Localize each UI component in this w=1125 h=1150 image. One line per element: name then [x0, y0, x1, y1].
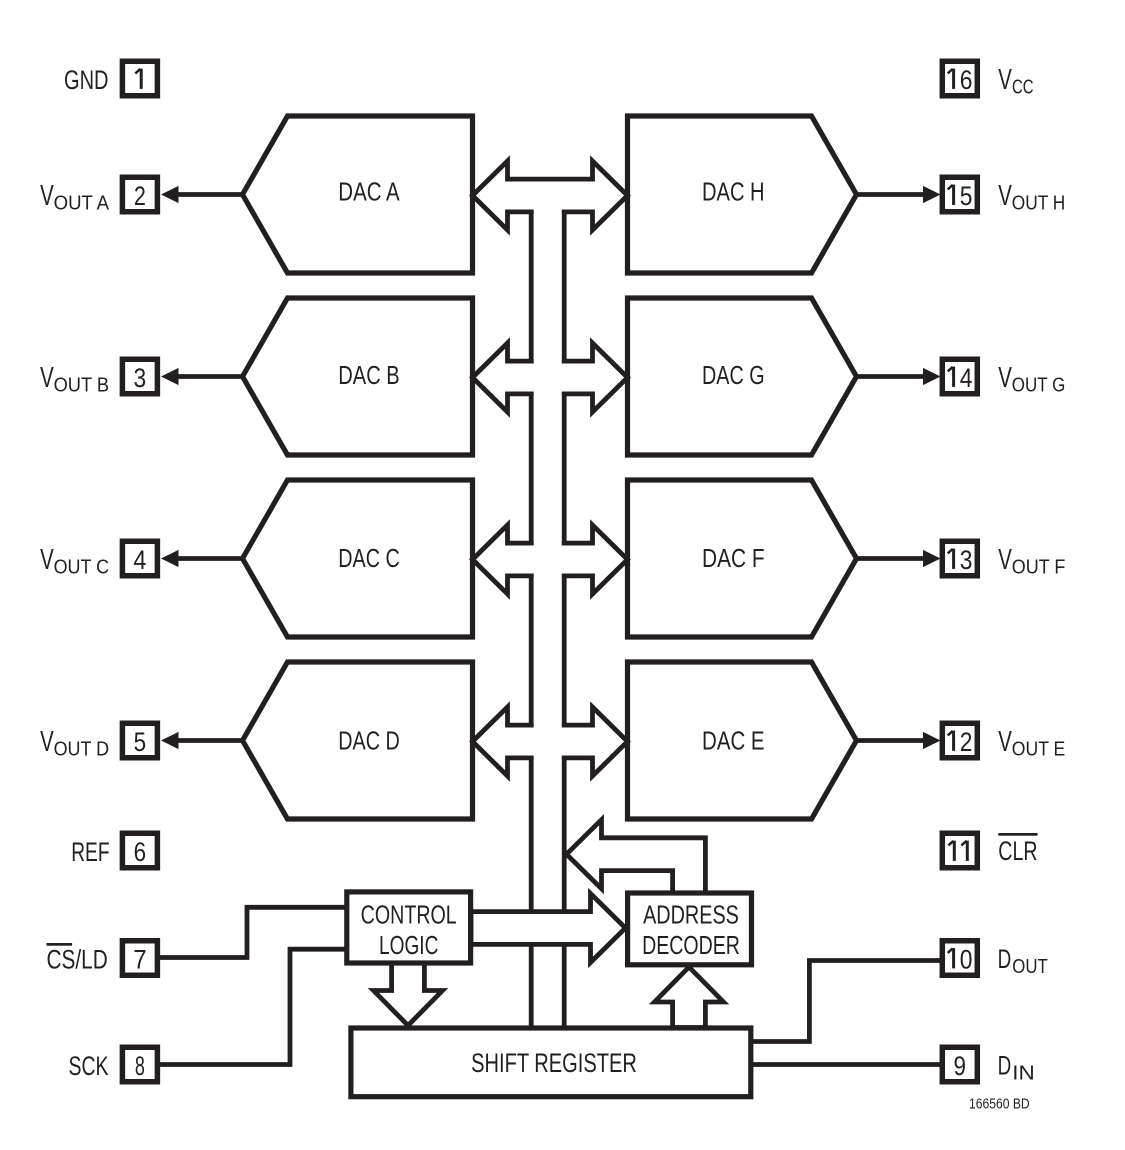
wire CS/LD to control logic [160, 907, 347, 957]
svg-text:DAC D: DAC D [338, 728, 399, 756]
control logic block [347, 892, 471, 963]
pin 15 number [952, 185, 955, 205]
svg-text:OUT F: OUT F [1012, 555, 1066, 578]
svg-text:DAC C: DAC C [338, 545, 399, 573]
svg-text:5: 5 [960, 181, 973, 211]
svg-text:V: V [40, 362, 54, 394]
pin box 3 [122, 359, 157, 394]
svg-text:OUT B: OUT B [54, 373, 110, 396]
pin box 7 [122, 941, 157, 976]
shift register block [351, 1028, 751, 1097]
bidirectional bus arrow row C [473, 525, 628, 594]
arrowhead VOUT G [923, 368, 941, 385]
svg-text:V: V [998, 544, 1012, 576]
wire DAC E to pin [857, 738, 930, 743]
arrowhead VOUT H [923, 186, 941, 203]
pin 11 number [953, 841, 956, 861]
svg-text:CC: CC [1012, 75, 1034, 98]
svg-text:166560 BD: 166560 BD [969, 1097, 1030, 1113]
pin 13 number [952, 549, 955, 569]
bus line right [562, 212, 567, 1028]
wire SCK to control logic [160, 949, 347, 1064]
pin 16 number [952, 69, 955, 89]
svg-text:REF: REF [71, 837, 109, 867]
svg-text:DAC H: DAC H [702, 178, 765, 206]
svg-text:SHIFT REGISTER: SHIFT REGISTER [471, 1048, 637, 1078]
pin 10 number [952, 948, 955, 968]
svg-text:V: V [998, 180, 1012, 212]
wire DAC A to pin [172, 192, 243, 197]
svg-text:6: 6 [134, 837, 147, 867]
wire DAC H to pin [857, 192, 930, 197]
svg-text:7: 7 [133, 944, 146, 974]
svg-text:DECODER: DECODER [642, 932, 740, 960]
pin box 6 [122, 833, 157, 868]
DAC H block [628, 116, 857, 273]
svg-text:OUT G: OUT G [1012, 373, 1066, 396]
pin 1 number [140, 69, 143, 89]
svg-text:2: 2 [134, 181, 146, 211]
svg-text:3: 3 [134, 363, 147, 393]
svg-text:OUT H: OUT H [1012, 191, 1066, 214]
pin box 8 [122, 1047, 157, 1082]
pin box 10 [942, 941, 977, 976]
arrow control logic to shift register [374, 963, 443, 1026]
bus channel crossing row A [534, 208, 562, 217]
wire DAC D to pin [172, 738, 243, 743]
svg-text:LOGIC: LOGIC [379, 932, 438, 960]
svg-text:DAC F: DAC F [702, 545, 765, 573]
svg-text:OUT: OUT [1012, 955, 1048, 978]
svg-text:OUT E: OUT E [1012, 737, 1066, 760]
bus channel crossing row C [534, 540, 562, 580]
arrowhead VOUT F [923, 550, 941, 567]
wire DAC F to pin [857, 556, 930, 561]
pin box 15 [942, 177, 977, 212]
pin box 14 [942, 359, 977, 394]
svg-text:SCK: SCK [69, 1051, 109, 1081]
DAC F block [628, 480, 857, 637]
svg-text:IN: IN [1012, 1061, 1035, 1084]
wire shift register to DIN [751, 1062, 941, 1067]
bidirectional bus arrow row A [473, 161, 628, 230]
svg-text:DAC B: DAC B [338, 362, 399, 390]
arrow control logic to address decoder [471, 894, 626, 963]
svg-text:4: 4 [133, 545, 146, 575]
arrowhead VOUT E [923, 732, 941, 749]
pin box 2 [122, 177, 157, 212]
svg-text:0: 0 [960, 944, 973, 974]
wire DAC G to pin [857, 374, 930, 379]
bus channel crossing row B [534, 358, 562, 398]
pin box 11 [942, 833, 977, 868]
svg-text:8: 8 [135, 1051, 145, 1081]
wire shift register to DOUT [751, 961, 942, 1042]
pin box 12 [942, 723, 977, 758]
pin box 1 [122, 61, 157, 96]
bus channel crossing row D [534, 722, 562, 762]
pin box 13 [942, 541, 977, 576]
address decoder block [628, 893, 752, 965]
svg-text:D: D [998, 944, 1012, 974]
svg-text:V: V [998, 726, 1012, 758]
svg-text:GND: GND [64, 65, 109, 95]
arrowhead VOUT D [161, 732, 179, 749]
svg-text:5: 5 [134, 727, 147, 757]
svg-text:V: V [40, 726, 54, 758]
svg-text:CONTROL: CONTROL [361, 901, 457, 929]
svg-text:DAC G: DAC G [702, 362, 765, 390]
wire DAC B to pin [172, 374, 243, 379]
svg-text:D: D [998, 1051, 1012, 1081]
svg-text:CLR: CLR [998, 836, 1037, 866]
svg-text:V: V [40, 180, 54, 212]
DAC A block [243, 116, 473, 273]
svg-text:2: 2 [960, 727, 973, 757]
arrowhead VOUT A [161, 186, 179, 203]
pin box 9 [942, 1047, 977, 1082]
svg-text:OUT C: OUT C [54, 555, 110, 578]
svg-text:DAC A: DAC A [338, 178, 399, 206]
pin 14 number [952, 367, 955, 387]
svg-text:OUT D: OUT D [54, 737, 110, 760]
svg-text:V: V [998, 362, 1012, 394]
arrow shift register to address decoder [655, 967, 724, 1028]
svg-text:V: V [40, 544, 54, 576]
wire DAC C to pin [172, 556, 243, 561]
pin box 16 [942, 61, 977, 96]
DAC D block [243, 662, 473, 819]
bus line left [529, 212, 534, 1028]
DAC G block [628, 298, 857, 455]
svg-text:CS/LD: CS/LD [47, 945, 108, 975]
svg-text:OUT A: OUT A [54, 191, 110, 214]
DAC B block [243, 298, 473, 455]
svg-text:9: 9 [954, 1051, 967, 1081]
bidirectional bus arrow row D [473, 707, 628, 776]
pin box 4 [122, 541, 157, 576]
arrow address decoder to bus [567, 820, 706, 893]
DAC C block [243, 480, 473, 637]
pin box 5 [122, 723, 157, 758]
arrowhead VOUT C [161, 550, 179, 567]
pin 12 number [952, 731, 955, 751]
svg-text:4: 4 [960, 363, 973, 393]
svg-text:3: 3 [960, 545, 973, 575]
svg-text:ADDRESS: ADDRESS [643, 901, 739, 929]
arrowhead VOUT B [161, 368, 179, 385]
svg-text:V: V [998, 64, 1012, 96]
svg-text:6: 6 [960, 65, 973, 95]
svg-text:DAC E: DAC E [702, 728, 765, 756]
bidirectional bus arrow row B [473, 343, 628, 412]
DAC E block [628, 662, 857, 819]
